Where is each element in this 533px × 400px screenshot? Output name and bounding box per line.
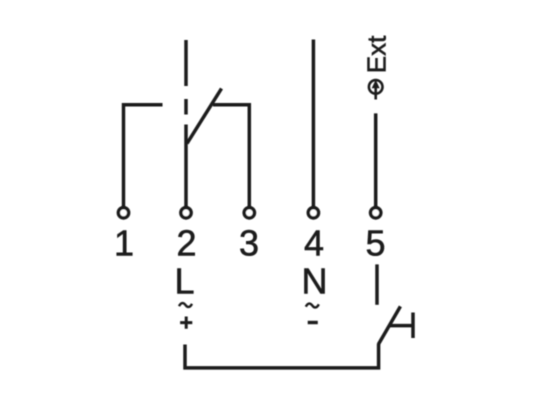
- terminal 3: [244, 208, 254, 218]
- wire terminal1-to-switch: [124, 105, 163, 213]
- wire dashed actuator above terminal 2: [184, 40, 188, 115]
- svg-text:2: 2: [176, 222, 196, 263]
- Ext input symbol arrow: [374, 85, 377, 100]
- label ~ under L: [179, 303, 192, 307]
- label - under N: [308, 321, 318, 324]
- svg-text:5: 5: [365, 222, 385, 263]
- push-button S2 blade: [378, 306, 400, 344]
- wire N terminal4 lead: [312, 40, 316, 214]
- svg-text:L: L: [175, 261, 195, 302]
- wire terminal5 lower lead: [375, 264, 379, 304]
- wire Ext-to-terminal5: [374, 113, 378, 213]
- svg-text:1: 1: [114, 222, 134, 263]
- push-button S2 actuator: [390, 313, 413, 339]
- Ext input symbol circle: [369, 80, 383, 94]
- wire bottom loop L-to-pushbutton: [185, 344, 379, 368]
- wire switch-to-terminal3: [213, 105, 249, 213]
- svg-text:N: N: [302, 261, 328, 302]
- switch S1 blade: [187, 89, 222, 144]
- terminal 2: [181, 208, 191, 218]
- label + under L: [180, 317, 192, 329]
- svg-text:3: 3: [239, 222, 259, 263]
- svg-text:4: 4: [304, 222, 324, 263]
- terminal 4: [308, 208, 318, 218]
- terminal 1: [118, 208, 128, 218]
- label ~ under N: [306, 304, 319, 308]
- wire terminal2 lead: [184, 125, 188, 214]
- svg-text:Ext: Ext: [362, 35, 392, 73]
- terminal 5: [371, 208, 381, 218]
